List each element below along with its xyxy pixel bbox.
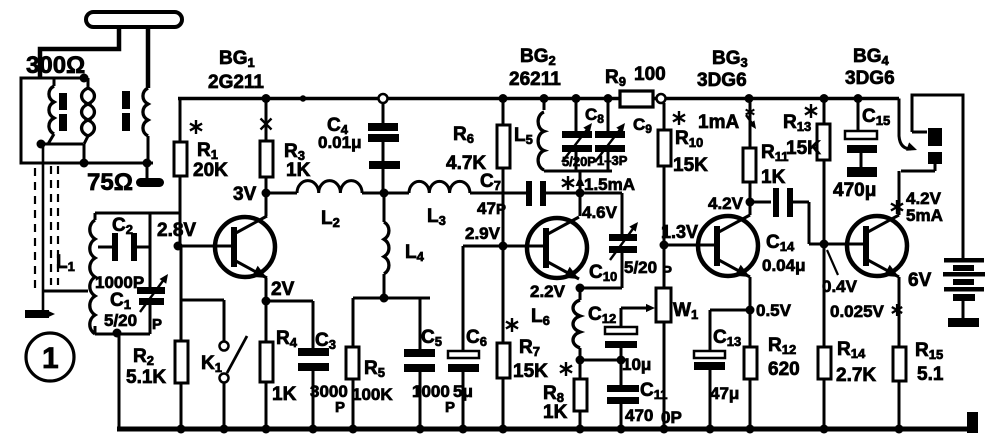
BG4 emitter wire — [898, 277, 901, 347]
variable capacitor C8 — [562, 99, 592, 172]
x mark on R3 line — [261, 119, 272, 130]
label 0.4V — [822, 277, 858, 296]
transistor BG4 — [847, 215, 907, 277]
svg-text:P: P — [335, 399, 345, 416]
svg-text:26211: 26211 — [509, 69, 561, 90]
svg-text:P: P — [496, 201, 506, 218]
resistor R6 — [497, 99, 510, 247]
junction dot L5 top — [540, 94, 549, 103]
svg-text:1.5mA: 1.5mA — [584, 175, 635, 194]
junction dot C9 top — [604, 94, 613, 103]
ground bar — [25, 310, 55, 318]
capacitor C6 electrolytic — [448, 351, 479, 429]
BG2 collector wire — [579, 171, 582, 216]
bottom ground rail — [117, 427, 972, 432]
resistor R14 — [818, 244, 831, 429]
resistor R13 — [817, 99, 830, 245]
svg-text:P: P — [445, 399, 455, 416]
capacitor C3 — [298, 301, 329, 429]
0.4V leader line — [827, 250, 838, 275]
label R3 — [284, 141, 311, 181]
inductor L1 — [90, 213, 95, 334]
label C11 — [625, 380, 682, 427]
asterisk at R7 value — [560, 362, 572, 376]
shield dashed line 0 — [34, 168, 36, 292]
label C12 — [588, 304, 651, 374]
junction dot R2 bottom rail — [177, 425, 186, 434]
junction dot BG2 base node — [499, 242, 508, 251]
resistor R10 — [658, 130, 671, 166]
inductor L3 — [362, 181, 470, 193]
resistor R3 — [260, 99, 273, 194]
antenna right lead — [146, 27, 151, 88]
BG3 base wire — [664, 244, 717, 247]
junction dot R5 bottom — [349, 425, 358, 434]
junction dot R11 top — [745, 94, 754, 103]
label L1 — [56, 252, 75, 274]
asterisk at C6 — [506, 318, 518, 332]
switch K1 — [220, 336, 248, 429]
transistor BG2 — [527, 217, 587, 279]
label R15 — [915, 340, 944, 385]
label C9 — [597, 115, 652, 168]
resistor R1 — [174, 99, 187, 247]
svg-text:3DG6: 3DG6 — [697, 70, 747, 91]
label 0.025V — [830, 302, 885, 321]
label R14 — [836, 339, 876, 386]
R10 column wire — [663, 103, 666, 429]
tank bottom wire BG2 — [544, 170, 612, 173]
svg-text:100K: 100K — [352, 385, 393, 404]
tank right wire — [149, 213, 152, 334]
svg-text:2V: 2V — [271, 279, 295, 300]
junction dot BG1 collector — [262, 189, 271, 198]
label 5/20 P — [104, 311, 162, 333]
label R10 — [673, 128, 708, 176]
balun mid wire — [41, 143, 83, 146]
asterisk at R13 — [805, 104, 817, 118]
label C13 — [710, 327, 741, 403]
inductor L4 — [384, 193, 389, 298]
earphone plug — [901, 128, 942, 171]
svg-text:470: 470 — [625, 406, 653, 425]
svg-text:300Ω: 300Ω — [26, 52, 85, 79]
balun winding B — [82, 78, 95, 163]
junction dot BG2 collector — [576, 189, 585, 198]
label 3V — [233, 184, 257, 205]
label K1 — [201, 353, 222, 375]
label C6 — [453, 327, 487, 401]
antenna left lead — [40, 27, 119, 78]
resistor R7 — [497, 246, 510, 429]
base wire BG1 — [178, 245, 234, 248]
resistor R5 — [346, 298, 359, 429]
junction dot R12 bottom — [746, 425, 755, 434]
label 2.2V — [530, 282, 566, 301]
junction dot L6 bottom — [576, 356, 585, 365]
svg-text:2.8V: 2.8V — [157, 220, 196, 241]
L6 node wire — [580, 359, 621, 362]
75Ω feeder lead — [146, 163, 149, 180]
junction dot balun top — [80, 74, 89, 83]
L4 node wire — [353, 297, 430, 300]
svg-text:5.1K: 5.1K — [126, 367, 166, 388]
variable capacitor C1 — [137, 274, 168, 312]
inductor L5 — [538, 99, 544, 172]
junction dot balun bottom B — [80, 159, 89, 168]
resistor R8 — [574, 360, 587, 429]
label BG1 — [208, 48, 264, 93]
balun winding C — [143, 88, 148, 163]
label R1 — [193, 140, 228, 181]
potentiometer W1 — [656, 288, 671, 322]
label 4.6V — [582, 203, 618, 222]
tank top wire — [95, 212, 180, 215]
label C3 — [310, 330, 348, 416]
junction dot R4 bottom — [262, 425, 271, 434]
label C5 — [412, 327, 455, 416]
figure number circle 1 — [26, 333, 74, 381]
label C14 — [762, 232, 806, 275]
junction dot C12 bottom node — [617, 356, 626, 365]
svg-text:1K: 1K — [543, 402, 568, 423]
asterisk on BG4 emitter — [892, 304, 902, 316]
battery 6V — [943, 258, 985, 327]
svg-text:6V: 6V — [908, 270, 932, 291]
svg-text:1–3P: 1–3P — [597, 153, 628, 168]
svg-text:2.9V: 2.9V — [465, 224, 501, 243]
svg-text:470μ: 470μ — [833, 180, 876, 201]
tank bottom wire — [95, 326, 150, 334]
svg-text:3V: 3V — [233, 184, 257, 205]
svg-text:10μ: 10μ — [622, 355, 651, 374]
label 1.3V — [661, 222, 698, 242]
svg-text:1K: 1K — [286, 160, 311, 181]
label L4 — [405, 242, 425, 264]
balun core bars — [59, 91, 130, 131]
label 4.2V 5mA — [906, 189, 943, 225]
label 4.2V left — [708, 194, 744, 213]
svg-text:5mA: 5mA — [906, 206, 943, 225]
resistor R2 — [175, 246, 188, 429]
svg-text:1K: 1K — [272, 384, 297, 405]
BG3 emitter wire — [749, 277, 752, 310]
capacitor C13 electrolytic — [694, 351, 725, 429]
asterisk at R10 — [673, 111, 685, 125]
label 75Ω — [87, 169, 133, 196]
junction dot BG3 collector — [746, 198, 755, 207]
junction dot balun bottom C — [143, 159, 152, 168]
svg-text:0.01μ: 0.01μ — [318, 133, 362, 152]
junction dot R8 bottom — [576, 425, 585, 434]
resistor R15 — [893, 347, 906, 429]
label C1 — [110, 290, 131, 312]
label 6V — [908, 270, 932, 291]
label 2.8V — [157, 220, 196, 241]
resistor R9 — [620, 91, 653, 107]
junction dot K1 bottom rail — [220, 425, 229, 434]
svg-text:15K: 15K — [786, 138, 821, 159]
tank to base wire — [150, 212, 178, 215]
junction dot C8 top — [572, 94, 581, 103]
label 0.5V — [756, 301, 792, 320]
svg-text:2.7K: 2.7K — [836, 365, 876, 386]
label BG3 — [697, 48, 748, 91]
label BG4 — [845, 46, 895, 89]
svg-text:75Ω: 75Ω — [87, 169, 133, 196]
svg-text:0.025V: 0.025V — [830, 302, 885, 321]
junction dot C15 top — [854, 94, 863, 103]
label L6 — [531, 306, 550, 328]
BG1 emitter wire — [265, 278, 268, 301]
asterisk on BG4 collector — [891, 200, 903, 214]
svg-text:2.2V: 2.2V — [530, 282, 566, 301]
svg-text:4.2V: 4.2V — [708, 194, 744, 213]
label R9 100 — [605, 64, 666, 89]
wire L3 to C7 — [470, 192, 526, 195]
top power rail (right segment) — [653, 97, 899, 101]
junction dot 1.3V node — [660, 241, 669, 250]
svg-text:4.6V: 4.6V — [582, 203, 618, 222]
svg-text:20K: 20K — [193, 160, 228, 181]
junction dot L2-L3-L4 — [380, 189, 389, 198]
svg-text:4.7K: 4.7K — [446, 153, 486, 174]
shield line solid — [42, 144, 45, 311]
small junction dot on rail — [300, 95, 306, 101]
label R13 — [783, 112, 821, 159]
junction dot R13 top — [820, 94, 829, 103]
collector current arrow 1.5mA — [562, 175, 635, 194]
svg-text:15K: 15K — [673, 155, 708, 176]
label C15 — [833, 106, 890, 201]
antenna (folded dipole bar) — [86, 12, 182, 27]
balun box left side — [21, 78, 153, 163]
BG3 collector wire — [749, 202, 752, 215]
svg-text:15K: 15K — [513, 361, 548, 382]
label 2V — [271, 279, 295, 300]
bottom rail right terminal post — [967, 412, 978, 433]
svg-text:0.4V: 0.4V — [822, 277, 858, 296]
inductor L2 — [266, 181, 362, 193]
open circle C4 top — [379, 94, 388, 103]
resistor R11 — [743, 99, 756, 203]
svg-text:0.5V: 0.5V — [756, 301, 792, 320]
label C2 — [112, 215, 133, 237]
capacitor C11 — [607, 360, 639, 429]
label R6 — [446, 124, 486, 174]
jack spring contact — [899, 99, 917, 151]
junction dot W1 bottom — [660, 425, 669, 434]
label BG2 — [509, 46, 561, 90]
label L3 — [427, 206, 446, 228]
inductor L6 — [573, 288, 580, 360]
C13 branch wire — [710, 310, 750, 351]
transistor BG3 — [698, 215, 758, 277]
label C4 — [318, 115, 362, 152]
open circle after R9 — [657, 94, 666, 103]
variable capacitor C10 loop — [580, 193, 638, 288]
capacitor C7 — [526, 181, 580, 206]
svg-text:47: 47 — [477, 199, 496, 218]
label W1 — [673, 300, 698, 322]
svg-text:47μ: 47μ — [710, 384, 739, 403]
top power rail (left segment) — [178, 97, 620, 101]
label R12 — [768, 335, 800, 380]
resistor R4 — [260, 301, 273, 429]
svg-text:1mA: 1mA — [698, 112, 739, 133]
capacitor C14 — [750, 188, 824, 244]
tank ground drop wire — [118, 333, 121, 429]
capacitor C2 — [98, 233, 150, 261]
svg-text:3DG6: 3DG6 — [845, 68, 895, 89]
junction dot C11 bottom — [617, 425, 626, 434]
svg-text:620: 620 — [768, 359, 800, 380]
svg-text:1: 1 — [42, 342, 59, 375]
label L5 — [514, 125, 533, 147]
label C10 — [589, 258, 672, 284]
label 300Ω — [26, 52, 85, 79]
svg-text:5/20: 5/20 — [624, 258, 657, 277]
asterisk at R1 — [190, 120, 202, 134]
junction dot R14 bottom — [820, 425, 829, 434]
resistor R12 — [744, 310, 757, 429]
junction dot base BG1 — [174, 242, 183, 251]
BG4 collector wire — [898, 171, 901, 215]
svg-text:1.3V: 1.3V — [661, 222, 698, 242]
label 1000P — [95, 273, 144, 292]
jack to battery wire — [912, 95, 963, 258]
variable capacitor C9 — [595, 99, 625, 172]
label R5 — [352, 358, 393, 404]
junction dot C5 bottom — [416, 425, 425, 434]
svg-text:1K: 1K — [761, 167, 786, 188]
label C7 — [477, 171, 506, 218]
junction dot C3 bottom — [309, 425, 318, 434]
shield dashed line 1 — [50, 166, 52, 285]
capacitor C4 — [368, 103, 400, 193]
junction dot R7 bottom — [499, 425, 508, 434]
emitter node wire — [266, 300, 313, 303]
label R11 — [761, 142, 788, 188]
svg-text:5/20P: 5/20P — [562, 154, 596, 169]
capacitor C5 — [404, 298, 435, 429]
tap wire to L1 — [43, 290, 88, 293]
label R7 — [513, 337, 548, 382]
capacitor C12 electrolytic — [605, 304, 655, 360]
junction dot C13 bottom — [706, 425, 715, 434]
svg-text:5.1: 5.1 — [917, 364, 944, 385]
junction dot BG4 base — [820, 240, 829, 249]
label R8 — [543, 383, 568, 423]
junction dot C6 bottom — [459, 425, 468, 434]
junction dot BG3 emitter — [746, 306, 755, 315]
svg-text:P: P — [152, 316, 162, 333]
junction dot BG1 emitter — [262, 297, 271, 306]
junction dot R6 top — [499, 94, 508, 103]
label 1mA arrow — [698, 107, 756, 133]
junction dot L4 bottom — [380, 294, 389, 303]
label R2 — [126, 346, 166, 388]
BG2 base wire — [503, 245, 546, 248]
junction dot R15 bottom — [895, 425, 904, 434]
shield dashed line 2 — [57, 166, 59, 285]
svg-text:0.04μ: 0.04μ — [762, 256, 806, 275]
junction dot tank bottom — [113, 329, 122, 338]
BG1 collector wire — [265, 193, 268, 216]
junction dot R3 top — [262, 94, 271, 103]
C6 stub wire — [463, 246, 503, 351]
junction dot balun mid — [37, 140, 46, 149]
switch K1 branch wire — [181, 300, 224, 341]
transistor BG1 — [215, 216, 275, 278]
junction dot BG2 emitter — [576, 284, 585, 293]
label C8 — [562, 105, 604, 169]
label 2.9V — [465, 224, 501, 243]
svg-text:5μ: 5μ — [453, 382, 473, 401]
svg-text:2G211: 2G211 — [208, 72, 264, 93]
svg-text:5/20: 5/20 — [104, 311, 137, 330]
75Ω terminal lug — [136, 178, 164, 187]
BG4 base wire — [824, 243, 866, 246]
label L2 — [321, 208, 340, 230]
svg-text:100: 100 — [634, 64, 666, 85]
label R4 — [272, 328, 298, 405]
balun winding A — [48, 78, 54, 144]
capacitor C15 — [845, 99, 877, 178]
